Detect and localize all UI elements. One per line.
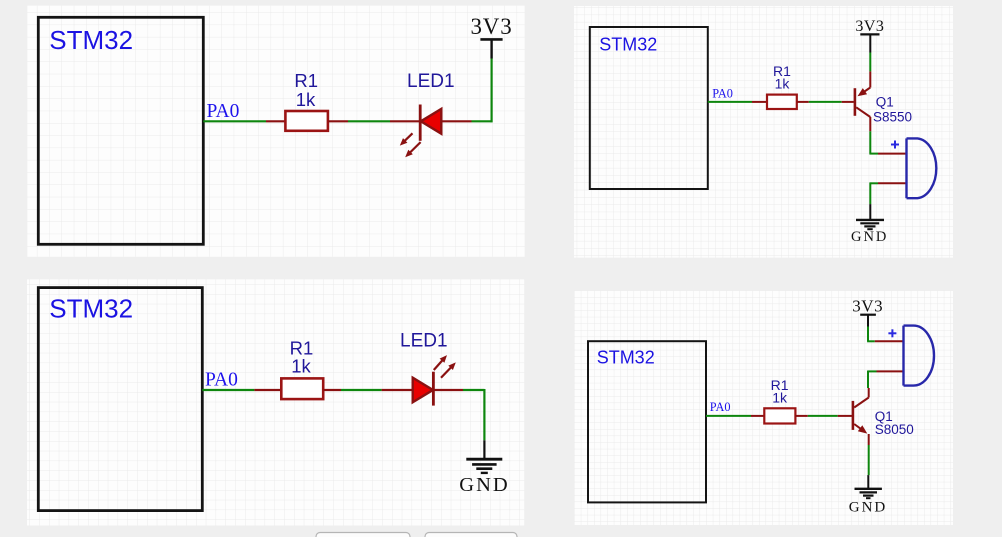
buzzer LS1 (panel 2) [878, 138, 936, 198]
value 1k (panel 4) [772, 389, 788, 405]
button 1 (bottom, partially visible) [316, 533, 410, 537]
svg-text:S8050: S8050 [875, 422, 914, 437]
resistor R1 (panel 3) [254, 378, 341, 399]
wire R1 to Q1 base (panel 4) [808, 415, 838, 417]
MCU box STM32 (panel 3) [38, 288, 202, 511]
svg-text:1k: 1k [775, 76, 791, 92]
wire LED1 to 3V3 (panel 1) [472, 59, 492, 123]
wire PA0 to R1 (panel 2) [708, 101, 752, 103]
svg-text:Q1: Q1 [876, 94, 894, 109]
panel 3 canvas [27, 279, 524, 525]
svg-text:R1: R1 [294, 70, 318, 91]
wire PA0 to R1 (panel 4) [706, 415, 751, 417]
label Q1 (panel 4) [875, 409, 893, 424]
wire buzzer to GND (panel 2) [870, 182, 878, 204]
LED LED1 (panel 3) [382, 372, 463, 406]
panel 1 canvas [27, 6, 524, 257]
power symbol 3V3 (panel 2) [855, 18, 884, 52]
svg-text:1k: 1k [296, 89, 316, 110]
MCU box STM32 (panel 4) [588, 341, 706, 502]
resistor R1 (panel 1) [266, 111, 348, 131]
power symbol 3V3 (panel 1) [470, 14, 512, 59]
button 2 (bottom, partially visible) [425, 533, 517, 537]
wire buzzer to Q1 collector (panel 4) [868, 371, 877, 389]
buzzer LS1 (panel 4) [875, 326, 934, 386]
pin label PA0 (panel 4) [710, 400, 731, 414]
wire LED1 to GND (panel 3) [463, 389, 484, 440]
wire 3V3 to buzzer (panel 4) [867, 327, 875, 342]
wire Q1 emitter to GND (panel 4) [868, 445, 870, 475]
svg-text:STM32: STM32 [49, 25, 133, 55]
value 1k (panel 3) [291, 356, 311, 377]
LED emission arrows (panel 3) [434, 355, 456, 378]
MCU box STM32 (panel 2) [590, 27, 708, 189]
ground symbol GND (panel 3) [459, 440, 509, 496]
panel 2 canvas [574, 6, 953, 258]
wire R1 to LED1 (panel 1) [348, 120, 390, 122]
value 1k (panel 2) [775, 76, 791, 92]
resistor R1 (panel 4) [751, 408, 808, 423]
svg-text:PA0: PA0 [710, 400, 731, 414]
svg-text:LED1: LED1 [407, 71, 455, 92]
svg-text:3V3: 3V3 [470, 14, 512, 39]
wire PA0 to R1 (panel 1) [203, 120, 266, 122]
resistor R1 (panel 2) [752, 95, 809, 109]
label Q1 (panel 2) [876, 94, 894, 109]
svg-text:GND: GND [851, 229, 888, 245]
label R1 (panel 4) [771, 377, 789, 393]
label LED1 (panel 3) [400, 331, 448, 352]
panel 4 canvas [574, 291, 953, 526]
svg-text:PA0: PA0 [207, 101, 240, 122]
pin label PA0 (panel 1) [207, 101, 240, 122]
wire R1 to Q1 base (panel 2) [809, 101, 842, 103]
power symbol 3V3 (panel 4) [852, 296, 883, 326]
plus polarity mark (panel 2) [891, 141, 899, 149]
value 1k (panel 1) [296, 89, 316, 110]
plus polarity mark (panel 4) [888, 329, 896, 337]
LED LED1 (panel 1) [390, 105, 472, 141]
pin label PA0 (panel 2) [712, 86, 733, 100]
pin label PA0 (panel 3) [205, 370, 238, 391]
svg-text:GND: GND [849, 499, 888, 515]
label LED1 (panel 1) [407, 71, 455, 92]
MCU box STM32 (panel 1) [38, 17, 203, 244]
value S8550 (panel 2) [873, 109, 912, 124]
value S8050 (panel 4) [875, 422, 914, 437]
transistor Q1 S8550 PNP (panel 2) [842, 71, 871, 131]
svg-text:GND: GND [459, 474, 509, 496]
svg-text:STM32: STM32 [599, 35, 657, 55]
svg-text:3V3: 3V3 [852, 296, 883, 315]
wire 3V3 to Q1 emitter (panel 2) [869, 53, 871, 72]
label R1 (panel 1) [294, 70, 318, 91]
svg-text:PA0: PA0 [712, 86, 733, 100]
label R1 (panel 2) [773, 63, 791, 79]
ground symbol GND (panel 4) [849, 475, 888, 515]
svg-text:LED1: LED1 [400, 331, 448, 352]
svg-text:PA0: PA0 [205, 370, 238, 391]
ground symbol GND (panel 2) [851, 204, 888, 245]
label R1 (panel 3) [290, 338, 314, 359]
svg-text:3V3: 3V3 [855, 18, 884, 35]
wire R1 to LED1 (panel 3) [341, 389, 382, 391]
svg-text:1k: 1k [772, 389, 788, 405]
svg-text:1k: 1k [291, 356, 311, 377]
svg-text:STM32: STM32 [49, 294, 133, 324]
wire PA0 to R1 (panel 3) [202, 389, 254, 391]
svg-text:S8550: S8550 [873, 109, 912, 124]
wire Q1 collector to buzzer (panel 2) [869, 131, 878, 153]
svg-text:STM32: STM32 [597, 348, 655, 368]
transistor Q1 S8050 NPN (panel 4) [838, 388, 869, 445]
LED emission arrows (panel 1) [400, 133, 421, 157]
